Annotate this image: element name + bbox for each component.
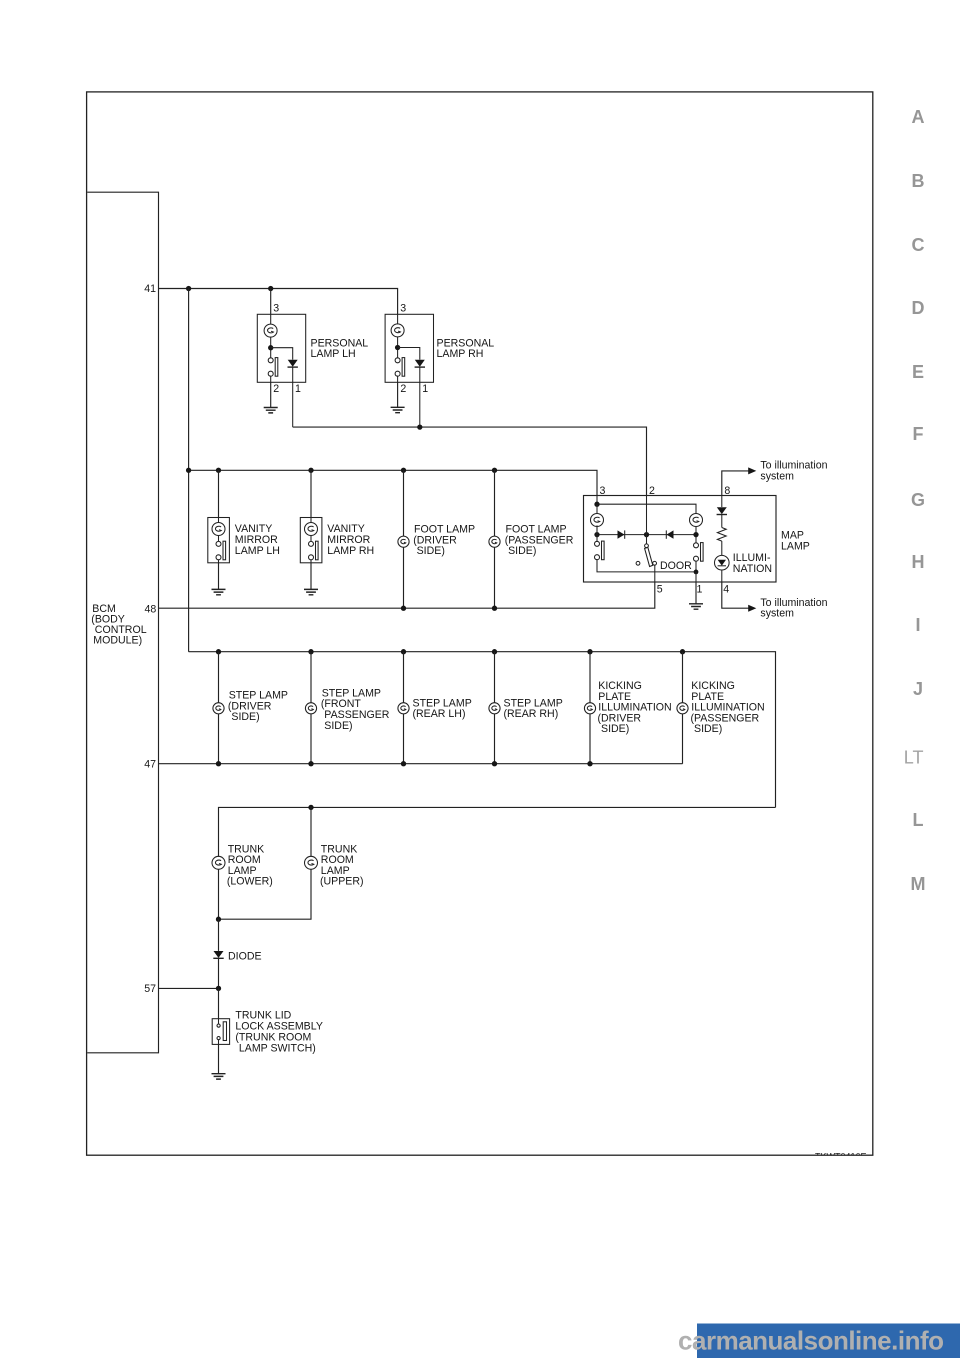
svg-text:SIDE): SIDE) <box>417 545 445 557</box>
watermark bar <box>697 1324 960 1358</box>
foot lamp driver side <box>398 470 475 608</box>
svg-text:(REAR RH): (REAR RH) <box>504 708 559 720</box>
map pin1 ground <box>695 582 697 604</box>
step lamp rear RH <box>489 652 563 764</box>
LED illumination <box>715 555 730 570</box>
map pin5 wire <box>654 565 656 582</box>
svg-text:LAMP RH: LAMP RH <box>437 348 484 360</box>
svg-text:SIDE): SIDE) <box>324 720 352 732</box>
map internal top bus <box>597 496 696 514</box>
kicking plate illumination driver side <box>584 652 671 764</box>
map bulb left <box>591 514 604 527</box>
step lamp front passenger side <box>305 652 389 764</box>
svg-text:SIDE): SIDE) <box>231 711 259 723</box>
svg-text:LAMP: LAMP <box>781 541 810 553</box>
wire 652 bus <box>189 652 776 808</box>
svg-text:F: F <box>913 424 924 444</box>
map illumination branch <box>721 496 723 508</box>
svg-text:(REAR LH): (REAR LH) <box>413 708 466 720</box>
svg-text:(UPPER): (UPPER) <box>320 876 364 888</box>
junction dot pin57 / lock assembly <box>216 986 221 991</box>
wire personal lamps pin1 bus to map lamp pin2 <box>293 427 647 495</box>
svg-text:system: system <box>760 470 794 482</box>
door switch lever <box>645 544 649 548</box>
map left switch <box>596 525 598 542</box>
trunk room lamp upper <box>219 807 364 919</box>
map bulb right <box>690 514 703 527</box>
wire 47 bus <box>159 763 683 765</box>
wire left vertical feeder <box>188 289 190 652</box>
svg-text:B: B <box>912 171 925 191</box>
map pin4 arrow to illumination system <box>722 582 749 608</box>
junction dots on 652 bus <box>216 649 221 654</box>
junction dot trunk bus / upper lamp <box>308 805 313 810</box>
resistor <box>717 528 726 542</box>
svg-text:L: L <box>913 810 924 830</box>
page frame <box>87 92 873 1155</box>
svg-text:D: D <box>912 298 925 318</box>
svg-text:2: 2 <box>273 383 279 395</box>
wire pin41 bus <box>159 289 398 315</box>
map middle bus with diodes <box>597 527 696 535</box>
svg-text:LAMP LH: LAMP LH <box>311 348 356 360</box>
svg-text:system: system <box>760 608 794 620</box>
svg-text:5: 5 <box>657 584 663 596</box>
svg-text:3: 3 <box>400 303 406 315</box>
svg-text:SIDE): SIDE) <box>508 545 536 557</box>
foot lamp passenger side <box>489 470 574 608</box>
map pin5 wire to 48 bus <box>159 582 655 608</box>
svg-text:MODULE): MODULE) <box>93 634 142 646</box>
svg-text:LAMP RH: LAMP RH <box>327 545 374 557</box>
svg-text:48: 48 <box>145 603 157 615</box>
svg-text:SIDE): SIDE) <box>694 723 722 735</box>
svg-text:4: 4 <box>723 584 729 596</box>
diode pointing left <box>667 530 674 538</box>
junction dots on 48 bus <box>401 606 406 611</box>
junction dot pin1 bus / personal lamp RH <box>417 424 422 429</box>
svg-text:41: 41 <box>144 283 156 295</box>
svg-text:3: 3 <box>273 303 279 315</box>
trunk lid lock assembly <box>212 988 323 1079</box>
svg-text:LAMP SWITCH): LAMP SWITCH) <box>239 1042 316 1054</box>
svg-text:47: 47 <box>144 758 156 770</box>
svg-text:NATION: NATION <box>733 563 772 575</box>
junction dots on 47 bus <box>216 761 221 766</box>
wire trunk bus <box>219 807 776 856</box>
svg-text:2: 2 <box>400 383 406 395</box>
junction dot trunk lamp loop / diode <box>216 917 221 922</box>
svg-text:SIDE): SIDE) <box>601 723 629 735</box>
personal lamp LH <box>257 303 368 428</box>
vanity mirror lamp RH <box>300 470 374 595</box>
junction dots on 470 bus <box>186 468 191 473</box>
step lamp driver side <box>213 652 288 764</box>
diode <box>213 919 261 988</box>
svg-text:H: H <box>912 552 925 572</box>
svg-text:J: J <box>913 679 923 699</box>
svg-text:C: C <box>912 235 925 255</box>
wire 470 bus <box>189 470 597 495</box>
BCM (BODY CONTROL MODULE) box <box>87 192 158 1053</box>
svg-text:DOOR: DOOR <box>660 560 692 572</box>
map pin2 wire <box>646 496 648 544</box>
svg-text:TKWT0416E: TKWT0416E <box>815 1152 867 1162</box>
diode pointing right <box>618 530 625 538</box>
svg-text:1: 1 <box>697 584 703 596</box>
wire pin 57 <box>159 987 219 989</box>
svg-text:57: 57 <box>144 983 156 995</box>
personal lamp RH <box>385 303 494 428</box>
vanity mirror lamp LH <box>208 470 280 595</box>
svg-text:M: M <box>911 874 926 894</box>
svg-text:1: 1 <box>295 383 301 395</box>
svg-text:carmanualsonline.info: carmanualsonline.info <box>678 1326 943 1356</box>
trunk room lamp lower <box>212 843 273 919</box>
map pin8 arrow to illumination system <box>722 471 749 496</box>
map lamp assembly <box>159 460 828 620</box>
node on 41 bus <box>186 286 191 291</box>
svg-text:E: E <box>912 362 924 382</box>
wire to personal lamp LH <box>270 289 272 315</box>
kicking plate illumination passenger side <box>677 652 765 764</box>
svg-text:(LOWER): (LOWER) <box>227 876 273 888</box>
svg-text:LT: LT <box>904 748 924 768</box>
step lamp rear LH <box>398 652 472 764</box>
map pin1 wire <box>695 572 697 582</box>
svg-text:DIODE: DIODE <box>228 951 262 963</box>
svg-text:LAMP LH: LAMP LH <box>235 545 280 557</box>
svg-text:A: A <box>912 107 925 127</box>
svg-text:G: G <box>911 490 925 510</box>
svg-text:I: I <box>915 615 920 635</box>
svg-text:1: 1 <box>422 383 428 395</box>
